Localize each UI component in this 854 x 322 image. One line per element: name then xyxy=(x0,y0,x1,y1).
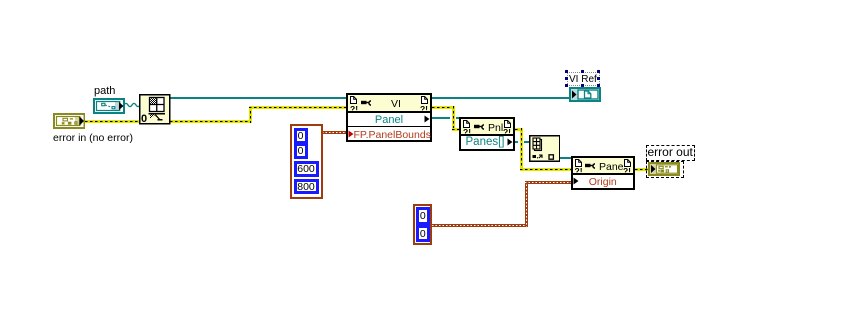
svg-text:0: 0 xyxy=(141,113,147,125)
